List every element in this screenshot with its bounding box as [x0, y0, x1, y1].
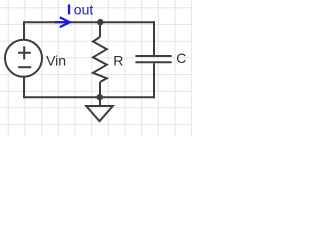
ground: [86, 97, 113, 121]
svg-text:Vin: Vin: [46, 53, 66, 69]
voltage source V1 (Vin): [5, 40, 42, 77]
svg-text:C: C: [176, 50, 186, 66]
svg-text:R: R: [113, 53, 123, 69]
label I (current symbol): [68, 4, 70, 14]
wire: voltage source bottom down to bottom-left corner: [23, 77, 25, 99]
wire: resistor top lead: [99, 22, 101, 37]
capacitor C: [135, 56, 171, 62]
wire: top rail from top-left corner to top-right corner: [24, 21, 155, 23]
current probe arrow (I out): [55, 17, 70, 27]
wire: left branch, top-left corner down to voltage source top: [23, 21, 25, 40]
resistor R: [93, 37, 107, 82]
wire: right branch top (top-right corner down to capacitor): [153, 21, 155, 55]
junction dot at bottom node: [97, 94, 103, 100]
junction dot at top node: [97, 19, 103, 25]
svg-text:out: out: [74, 1, 94, 17]
wire: resistor bottom lead: [99, 82, 101, 97]
wire: right branch bottom (capacitor down to bottom-right corner): [153, 63, 155, 98]
wire: bottom rail: [24, 96, 155, 98]
